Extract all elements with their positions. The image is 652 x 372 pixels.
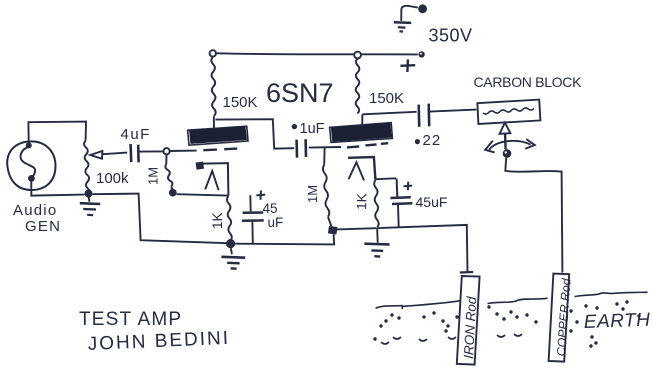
- svg-text:6SN7: 6SN7: [266, 78, 334, 108]
- resistor 1K first cathode: [227, 196, 232, 241]
- wire ground bus to first cathode junction: [93, 194, 228, 244]
- triode U1B plate: [330, 123, 393, 143]
- wire second cathode bus to iron rod lead: [377, 225, 467, 272]
- label .22: [415, 132, 441, 149]
- ground under pot: [80, 196, 100, 215]
- plus sign 45uF first: [256, 190, 265, 199]
- capacitor .1uF: [297, 139, 341, 157]
- triode U1B heater symbol: [349, 162, 364, 180]
- svg-text:22: 22: [423, 132, 442, 149]
- node B+ right: [354, 52, 361, 59]
- triode U1A heater symbol: [205, 171, 218, 190]
- resistor 1M first grid: [165, 154, 172, 189]
- ground first cathode: [221, 248, 245, 269]
- copper rod body: [549, 274, 570, 362]
- plus sign B+: [400, 59, 415, 72]
- wire audio-gen top to pot top: [28, 122, 86, 143]
- svg-text:150K: 150K: [223, 94, 258, 111]
- wire plate 2 to .22 cap: [362, 112, 416, 115]
- ground second cathode: [364, 228, 389, 256]
- triode U1A plate: [188, 126, 248, 145]
- junction dot first cathode: [226, 239, 235, 248]
- carbon block body: [477, 100, 540, 124]
- svg-text:150K: 150K: [369, 90, 404, 107]
- svg-text:uF: uF: [268, 215, 284, 230]
- svg-text:350V: 350V: [429, 26, 473, 46]
- wire node to grid 1: [170, 150, 197, 152]
- junction dot 1M bottom: [169, 189, 177, 197]
- svg-text:45: 45: [263, 201, 278, 216]
- plus sign 45uF second: [404, 182, 413, 191]
- wire plate 1 to coupling cap: [215, 119, 294, 148]
- resistor 150k first: [211, 57, 215, 116]
- svg-text:1K: 1K: [210, 212, 225, 229]
- svg-text:1M: 1M: [146, 167, 161, 185]
- terminal 350V plus: [418, 51, 424, 57]
- triode U1A cathode bracket: [196, 162, 229, 196]
- terminal dot 350V ground: [418, 4, 427, 13]
- resistor 150k second: [356, 59, 360, 114]
- svg-text:4uF: 4uF: [121, 126, 151, 143]
- triode U1B grid (dashes): [347, 143, 388, 147]
- resistor 1M second grid: [323, 148, 332, 227]
- wire 1M bottom to cathode node: [177, 194, 228, 195]
- svg-text:GEN: GEN: [25, 218, 61, 235]
- earth surface line left: [376, 301, 460, 309]
- label Audio GEN: [13, 202, 61, 235]
- svg-text:1M: 1M: [305, 185, 320, 203]
- iron rod tick: [460, 271, 473, 274]
- capacitor 45uF second: [375, 178, 412, 227]
- triode U1B cathode bracket: [348, 157, 375, 180]
- potentiometer 100k body: [84, 141, 90, 196]
- svg-text:TEST AMP: TEST AMP: [79, 309, 182, 330]
- soil speckles: [374, 301, 640, 347]
- wire wiper to copper rod: [505, 158, 562, 273]
- wire B+ rail: [216, 53, 418, 54]
- wire square to second cathode bus: [337, 228, 377, 229]
- svg-text:Audio: Audio: [13, 202, 57, 219]
- junction square 1M2 bottom: [328, 226, 338, 235]
- svg-text:CARBON BLOCK: CARBON BLOCK: [474, 74, 583, 90]
- capacitor 4uF: [131, 144, 164, 162]
- wire cathode junction to 1M2 corner: [235, 234, 334, 244]
- triode U1A grid (dashes): [203, 149, 237, 151]
- wiper terminal dot: [503, 149, 512, 158]
- svg-text:1K: 1K: [354, 193, 370, 210]
- label .1uF: [292, 121, 325, 137]
- svg-text:45uF: 45uF: [416, 194, 448, 210]
- svg-text:100k: 100k: [96, 170, 129, 187]
- wire audio-gen bottom to ground bus: [31, 181, 84, 195]
- junction dot pot bottom: [85, 190, 93, 198]
- svg-text:EARTH: EARTH: [583, 310, 650, 333]
- audio generator: [7, 141, 55, 190]
- svg-text:1uF: 1uF: [300, 121, 325, 137]
- capacitor 45uF first: [242, 195, 264, 243]
- earth surface line right: [575, 292, 648, 296]
- capacitor .22: [419, 104, 477, 127]
- wire plate 1 lead: [213, 116, 215, 129]
- node B+ left: [210, 50, 216, 56]
- earth surface line middle: [488, 298, 548, 303]
- potentiometer wiper arrow: [90, 151, 127, 159]
- resistor 1K second cathode: [374, 180, 379, 227]
- adjustment arc arrow: [485, 139, 535, 152]
- wiper arrow carbon block: [500, 123, 511, 150]
- wire plate 2 lead: [361, 114, 363, 126]
- node 4uF output: [164, 148, 170, 154]
- iron rod body: [457, 276, 480, 365]
- ground 350V supply: [394, 6, 418, 32]
- label 45uF first: [263, 201, 284, 230]
